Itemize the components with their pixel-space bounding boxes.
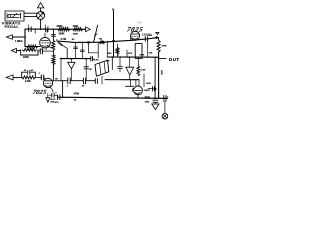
svg-text:12AX7: 12AX7 [142, 33, 151, 36]
svg-text:1500: 1500 [28, 49, 34, 52]
svg-text:7025: 7025 [126, 27, 144, 34]
svg-text:250K: 250K [140, 55, 145, 57]
svg-text:3.3K: 3.3K [52, 56, 57, 58]
svg-text:PEDAL: PEDAL [5, 25, 20, 29]
svg-text:2.2M: 2.2M [25, 80, 30, 83]
svg-text:220K: 220K [23, 56, 29, 59]
svg-text:250K: 250K [59, 33, 65, 36]
svg-text:7025: 7025 [32, 89, 48, 96]
svg-text:100K: 100K [73, 25, 79, 28]
svg-text:5: 5 [56, 93, 57, 95]
svg-text:10K: 10K [149, 53, 153, 55]
svg-text:220K: 220K [57, 25, 63, 28]
svg-text:2.2M: 2.2M [141, 70, 146, 72]
svg-text:25-25: 25-25 [145, 96, 151, 98]
svg-text:100K: 100K [146, 83, 151, 85]
svg-text:1 MEG: 1 MEG [15, 40, 23, 43]
svg-text:1M: 1M [55, 79, 58, 81]
svg-text:470K: 470K [162, 45, 168, 48]
svg-text:100K: 100K [160, 70, 162, 75]
svg-text:5600: 5600 [73, 33, 79, 35]
svg-text:4.7M: 4.7M [128, 52, 133, 55]
svg-text:12AX7: 12AX7 [144, 89, 151, 92]
svg-text:470K: 470K [74, 92, 80, 95]
svg-text:B: B [112, 8, 114, 12]
svg-text:1W: 1W [89, 69, 92, 71]
svg-text:OUT: OUT [169, 57, 180, 62]
svg-text:4.7M: 4.7M [61, 38, 66, 41]
svg-text:1M: 1M [99, 38, 102, 40]
svg-text:4.7M: 4.7M [94, 58, 99, 61]
svg-text:240: 240 [137, 21, 142, 25]
svg-text:PM: PM [107, 61, 110, 63]
